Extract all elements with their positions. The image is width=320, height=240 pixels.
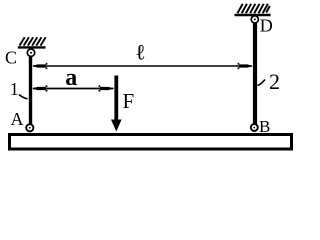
support ceiling line at C [18, 46, 46, 48]
leader line for label 2 [258, 80, 266, 86]
arrowhead left of a [32, 87, 46, 90]
force F arrowhead [111, 120, 122, 132]
arrowhead left of l [32, 64, 46, 67]
svg-text:B: B [259, 117, 270, 136]
arrowhead right of a [100, 87, 114, 90]
rod 1 (link AC) [29, 52, 32, 128]
rod 2 (link BD) [253, 19, 257, 128]
pin D [251, 16, 258, 23]
pin B [251, 124, 258, 131]
leader line for label 1 [19, 95, 28, 99]
pin A [26, 124, 33, 131]
svg-text:ℓ: ℓ [135, 40, 146, 65]
dimension line l [33, 65, 252, 67]
svg-text:A: A [11, 109, 24, 129]
svg-text:D: D [260, 16, 273, 36]
force F line [114, 76, 118, 122]
beam (rigid bar AB) [10, 135, 292, 150]
fixed support hatching at C [20, 37, 46, 45]
svg-text:F: F [123, 89, 135, 113]
svg-text:2: 2 [269, 69, 280, 94]
svg-text:a: a [65, 65, 77, 91]
dimension line a [33, 88, 114, 90]
support ceiling line at D [235, 14, 271, 17]
pin C [27, 49, 34, 56]
fixed support hatching at D [238, 4, 270, 13]
svg-text:1: 1 [10, 79, 19, 99]
arrowhead right of l [239, 64, 253, 67]
svg-text:C: C [5, 48, 17, 68]
